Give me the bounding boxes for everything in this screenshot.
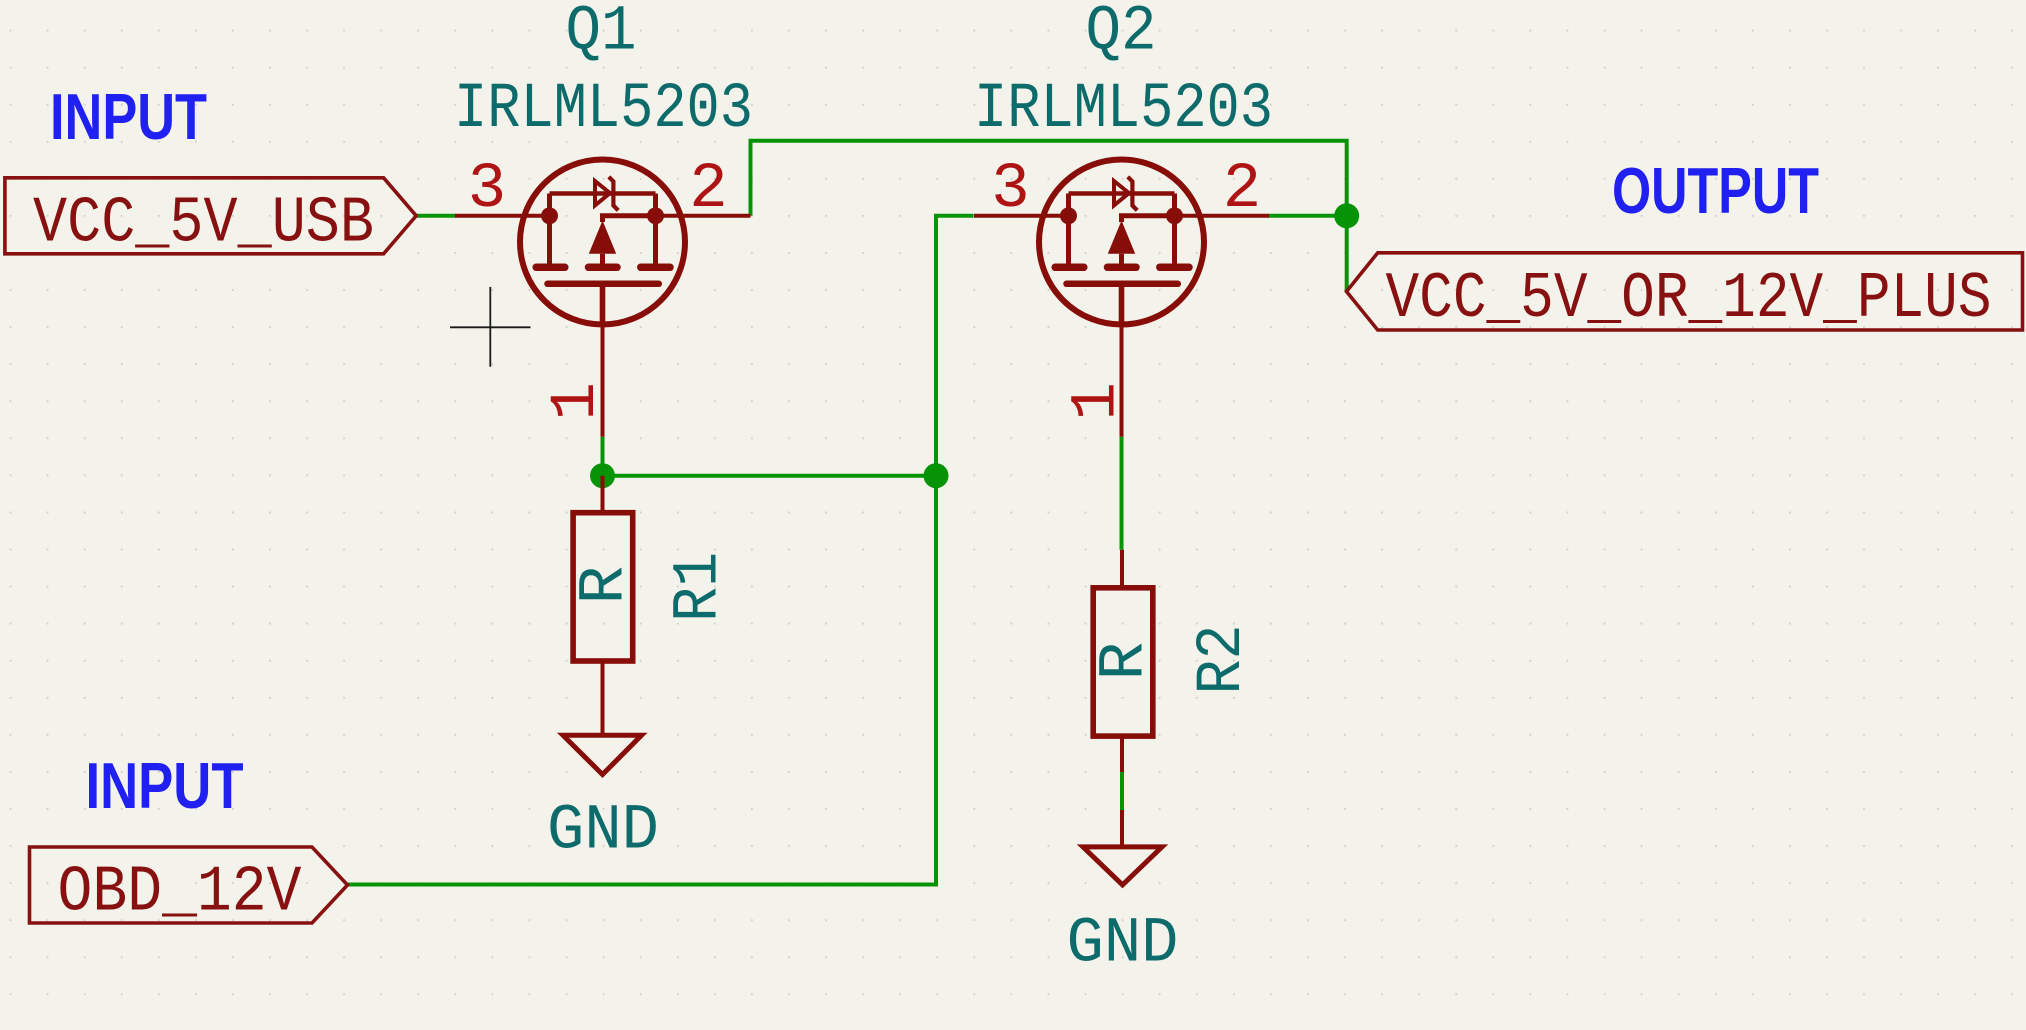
ground symbol GND2 bbox=[1083, 810, 1162, 885]
svg-text:INPUT: INPUT bbox=[50, 80, 207, 153]
hierarchical label OBD_12V bbox=[30, 847, 348, 923]
svg-text:R1: R1 bbox=[664, 552, 736, 622]
resistor R2 bbox=[1093, 550, 1153, 772]
svg-text:Q1: Q1 bbox=[566, 0, 637, 69]
wire Q2 pin1 down to R2 bbox=[1120, 437, 1124, 550]
svg-text:1: 1 bbox=[1061, 382, 1133, 420]
svg-text:1: 1 bbox=[541, 382, 613, 420]
transistor Q1 IRLML5203 bbox=[455, 160, 751, 437]
transistor Q2 IRLML5203 bbox=[974, 160, 1269, 437]
svg-text:R: R bbox=[1090, 642, 1162, 680]
svg-text:3: 3 bbox=[991, 154, 1029, 226]
wire VCC_5V_USB to Q1 pin3 bbox=[416, 214, 455, 218]
hierarchical label VCC_5V_USB bbox=[5, 178, 416, 254]
svg-text:R2: R2 bbox=[1187, 625, 1259, 695]
junction node A (Q1 gate/R1) bbox=[590, 463, 615, 488]
svg-text:INPUT: INPUT bbox=[86, 749, 244, 822]
wire node under Q1 to node under OBD riser bbox=[603, 474, 937, 478]
wire Q1 pin2 up and over to output junction bbox=[751, 141, 1347, 216]
svg-text:IRLML5203: IRLML5203 bbox=[454, 74, 753, 146]
svg-text:R: R bbox=[570, 566, 642, 604]
svg-text:VCC_5V_OR_12V_PLUS: VCC_5V_OR_12V_PLUS bbox=[1386, 262, 1992, 336]
svg-text:2: 2 bbox=[1223, 154, 1261, 226]
wire Q1 pin1 down to node bbox=[601, 437, 605, 476]
svg-text:3: 3 bbox=[468, 154, 506, 226]
svg-text:GND: GND bbox=[547, 796, 659, 868]
resistor R1 bbox=[573, 476, 633, 699]
ground symbol GND1 bbox=[563, 699, 642, 775]
wire output junction down to VCC_5V_OR_12V_PLUS label bbox=[1345, 216, 1349, 292]
svg-text:IRLML5203: IRLML5203 bbox=[974, 74, 1273, 146]
svg-text:OBD_12V: OBD_12V bbox=[58, 855, 302, 929]
wire R2 bottom to GND bbox=[1120, 772, 1124, 810]
wire Q2 pin2 to output junction bbox=[1269, 214, 1347, 218]
hierarchical label VCC_5V_OR_12V_PLUS bbox=[1347, 253, 2023, 330]
anchor crosshair marker bbox=[450, 287, 531, 367]
svg-text:OUTPUT: OUTPUT bbox=[1612, 154, 1819, 227]
junction node C (output) bbox=[1334, 203, 1359, 228]
wire OBD_12V label to Q2 pin3 bbox=[348, 216, 974, 885]
svg-text:2: 2 bbox=[689, 154, 727, 226]
junction node B (OBD riser) bbox=[924, 463, 949, 488]
svg-text:GND: GND bbox=[1067, 909, 1179, 981]
svg-text:VCC_5V_USB: VCC_5V_USB bbox=[33, 186, 374, 260]
svg-text:Q2: Q2 bbox=[1086, 0, 1157, 69]
